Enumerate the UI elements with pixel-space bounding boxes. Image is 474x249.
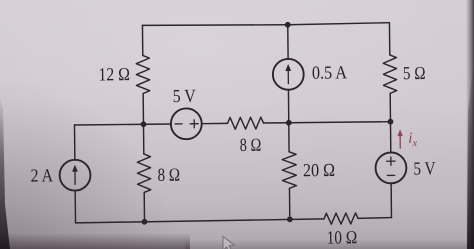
wire column C top lead <box>287 25 289 59</box>
mouse cursor <box>223 236 234 249</box>
voltage source 5 V right circle <box>375 152 406 183</box>
voltage source 5 V middle minus sign <box>175 123 182 125</box>
wire column D middle segment <box>389 93 392 152</box>
svg-text:0.5 A: 0.5 A <box>312 63 348 83</box>
wire column C middle segment <box>287 90 289 123</box>
voltage source 5 V right minus sign <box>387 174 394 176</box>
wire left column below 2A source <box>74 191 76 223</box>
junction dot node B bottom <box>142 219 148 225</box>
shadow bottom edge of photo <box>0 233 190 249</box>
junction dot node D middle <box>388 119 394 125</box>
resistor R 8 ohm vertical <box>137 154 151 193</box>
svg-text:8 Ω: 8 Ω <box>240 136 262 156</box>
wire column C bottom lead <box>288 188 290 219</box>
wire column D top lead <box>388 23 390 55</box>
junction dot node top C <box>285 22 291 28</box>
wire bottom horizontal right of 10 ohm resistor <box>358 217 392 220</box>
current arrow i_x red <box>397 129 403 148</box>
junction dot node B middle <box>141 121 147 127</box>
resistor R 8 ohm horizontal <box>227 117 263 129</box>
shadow right edge lower part stronger <box>467 60 474 249</box>
wire bottom horizontal left segment <box>76 219 325 223</box>
wire left column (node A to 2A source and bottom) <box>73 125 75 160</box>
shadow right edge of photo <box>466 0 474 249</box>
junction dot node C bottom <box>287 216 293 222</box>
current source 0.5 A arrow <box>287 68 289 83</box>
wire column D bottom lead <box>390 183 392 217</box>
wire column B bottom lead <box>143 192 145 221</box>
svg-text:5 Ω: 5 Ω <box>403 64 426 84</box>
current source 2 A circle <box>59 160 90 191</box>
svg-text:5 V: 5 V <box>413 159 436 179</box>
resistor R 12 ohm <box>136 55 150 93</box>
svg-text:ix: ix <box>408 130 418 150</box>
resistor R 10 ohm horizontal <box>324 213 358 224</box>
shadow left edge of photo <box>0 95 10 249</box>
junction dot node C middle <box>286 120 292 126</box>
wire middle horizontal from 8 ohm resistor to node C <box>263 122 288 124</box>
wire middle horizontal left segment <box>74 124 170 125</box>
current source 2 A arrow <box>74 169 76 184</box>
voltage source 5 V right plus sign <box>387 157 395 165</box>
resistor R 5 ohm <box>383 55 397 94</box>
wire top horizontal <box>142 23 389 27</box>
voltage source 5 V middle plus sign <box>190 120 198 128</box>
svg-text:20 Ω: 20 Ω <box>303 161 335 181</box>
shadow left side soft vignette <box>0 75 180 249</box>
voltage source 5 V middle circle <box>171 108 202 139</box>
wire middle horizontal from node C to node D <box>289 122 391 123</box>
wire column B top lead <box>141 25 143 55</box>
wire column C from node to 20 ohm <box>288 123 290 152</box>
wire middle horizontal from 5V source to 8 ohm resistor <box>202 122 228 124</box>
resistor R 20 ohm <box>282 152 296 189</box>
wire column B middle segment <box>142 93 145 153</box>
current source 0.5 A circle <box>273 59 304 90</box>
